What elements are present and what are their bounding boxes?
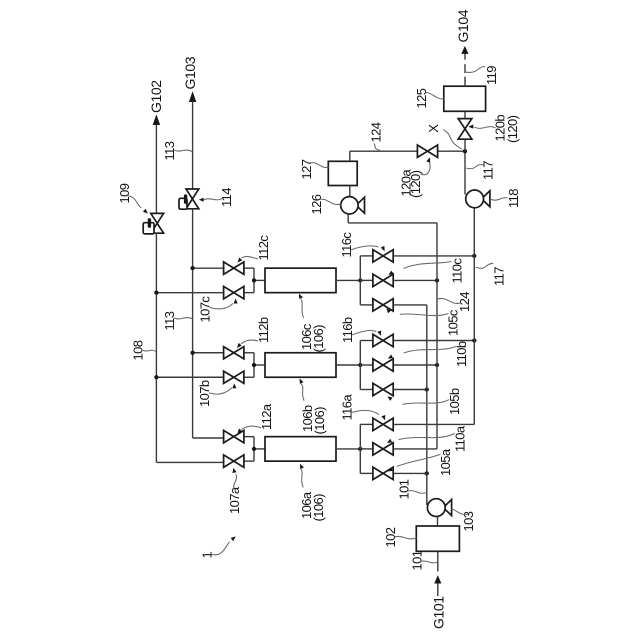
svg-text:116a: 116a <box>340 394 355 421</box>
valve 105b <box>373 383 393 395</box>
wire 110c outlet <box>393 278 439 282</box>
valve 107c <box>224 286 244 298</box>
node joiner a <box>252 437 265 462</box>
node spreader c <box>336 256 373 305</box>
adsorber 106a <box>265 437 336 462</box>
label 101 below box with leader <box>409 550 437 570</box>
label 117 lower with leader <box>476 263 506 286</box>
label 113 lower with leader <box>162 311 192 330</box>
valve 112b <box>224 347 244 359</box>
wire 107a branch <box>244 460 254 462</box>
svg-text:101: 101 <box>409 550 424 570</box>
wire 112a branch <box>244 436 254 438</box>
wire 105a outlet <box>393 471 429 475</box>
label X with leader <box>426 124 461 149</box>
label 116c with leader <box>339 232 385 258</box>
label 105b with leader <box>387 388 462 415</box>
svg-text:110c: 110c <box>450 258 465 284</box>
label 120a (120) with leader <box>398 157 430 198</box>
node spreader a <box>336 424 373 473</box>
wire 112c branch <box>190 266 254 270</box>
label 124 right with leader <box>438 292 472 312</box>
svg-text:G103: G103 <box>182 56 198 89</box>
label 110b with leader <box>388 341 469 367</box>
svg-text:(106): (106) <box>311 494 326 522</box>
svg-text:110b: 110b <box>454 341 469 367</box>
wire 101 inlet <box>437 551 439 596</box>
wire 105c outlet <box>393 304 427 306</box>
wire 108 main vertical <box>156 233 223 462</box>
condenser 125 <box>444 86 486 111</box>
svg-text:110a: 110a <box>453 425 468 452</box>
node joiner b <box>252 353 265 378</box>
flow arrow G104 <box>461 46 468 54</box>
scrubber 102 <box>416 526 459 551</box>
label 110c with leader <box>388 258 464 284</box>
label 102 with leader <box>383 527 416 547</box>
svg-text:105b: 105b <box>447 388 462 415</box>
valve 107b <box>224 371 244 383</box>
label 107b with leader <box>197 380 236 407</box>
flow arrow G102 <box>153 114 160 125</box>
label 116b with leader <box>340 317 381 343</box>
adsorber 106c <box>265 268 336 293</box>
valve 110a <box>373 443 393 455</box>
valve 114 (control valve) <box>179 189 199 209</box>
valve 116c <box>373 250 393 262</box>
svg-text:126: 126 <box>309 194 324 214</box>
flow arrow G103 <box>189 91 196 102</box>
svg-text:(120): (120) <box>505 115 520 143</box>
label 101 near pump with leader <box>396 479 426 499</box>
wire 107c branch <box>154 291 254 295</box>
svg-text:112b: 112b <box>256 317 271 343</box>
wire 110b outlet <box>393 363 439 367</box>
wire 124 header (line B) <box>348 223 437 449</box>
label 125 with leader <box>414 88 444 108</box>
pump 126 <box>341 186 365 223</box>
label 108 with leader <box>131 340 156 360</box>
svg-text:124: 124 <box>457 292 472 312</box>
wire G102 riser <box>155 124 157 213</box>
label 106a (106) with leader <box>299 464 326 522</box>
valve 116b <box>373 334 393 346</box>
svg-text:119: 119 <box>484 66 499 85</box>
wire 101 header (line A) <box>426 305 428 505</box>
wire 113 main vertical <box>193 209 224 438</box>
wire 116a outlet <box>393 423 474 425</box>
svg-text:102: 102 <box>383 527 398 547</box>
valve 112a <box>224 430 244 442</box>
label 112c with leader <box>238 235 272 263</box>
label 114 with leader <box>199 188 234 207</box>
junction dot 124/117 <box>463 149 467 153</box>
label 105a with leader <box>388 448 454 476</box>
label 113 upper with leader <box>162 141 192 160</box>
label 118 with leader <box>491 189 521 208</box>
svg-text:117: 117 <box>481 161 496 180</box>
wire 116c outlet <box>393 254 476 258</box>
valve 110c <box>373 274 393 286</box>
node spreader b <box>336 341 373 390</box>
svg-text:117: 117 <box>491 267 506 286</box>
wire 105b outlet <box>393 387 429 391</box>
svg-text:(106): (106) <box>311 325 326 353</box>
valve 107a <box>224 455 244 467</box>
label 106c (106) with leader <box>299 294 326 353</box>
svg-text:101: 101 <box>396 479 411 499</box>
svg-text:105a: 105a <box>438 448 453 476</box>
valve 120a <box>417 145 437 157</box>
label 126 with leader <box>309 194 341 214</box>
adsorber 106b <box>265 353 336 378</box>
svg-text:113: 113 <box>162 311 177 330</box>
svg-text:G102: G102 <box>148 80 164 113</box>
pump 118 <box>465 151 490 208</box>
valve 116a <box>373 418 393 430</box>
svg-text:G101: G101 <box>431 596 447 629</box>
label 127 with leader <box>299 159 328 179</box>
label 110a with leader <box>387 425 468 452</box>
label 106b (106) with leader <box>300 379 328 435</box>
label 124 upper with leader <box>368 122 383 150</box>
label 107c with leader <box>198 296 238 323</box>
svg-text:112c: 112c <box>256 235 271 261</box>
box 127 <box>328 161 357 185</box>
label 112b with leader <box>237 317 271 348</box>
wire 110a outlet <box>393 448 437 450</box>
svg-text:116b: 116b <box>340 317 355 343</box>
svg-text:124: 124 <box>368 122 383 142</box>
label 109 with leader <box>117 183 148 213</box>
label 107a with leader <box>227 468 242 514</box>
wire 112b branch <box>190 351 254 355</box>
label 120b (120) with leader <box>468 115 520 143</box>
svg-text:(120): (120) <box>408 170 423 198</box>
svg-text:125: 125 <box>414 88 429 108</box>
valve 110b <box>373 359 393 371</box>
label 1 with leader arrow <box>199 536 235 558</box>
svg-text:G104: G104 <box>455 9 471 42</box>
wire G103 riser <box>192 101 194 189</box>
label 119 with leader <box>466 66 499 85</box>
label 103 with leader <box>452 509 476 532</box>
label 117 upper with leader <box>467 161 496 180</box>
valve 105c <box>373 299 393 311</box>
wire 116b outlet <box>393 338 476 342</box>
svg-text:116c: 116c <box>339 232 354 258</box>
svg-text:107a: 107a <box>227 486 242 514</box>
svg-text:114: 114 <box>219 188 234 207</box>
wire 119 dashed <box>464 53 466 87</box>
label 116a with leader <box>340 394 386 421</box>
svg-text:112a: 112a <box>259 403 274 430</box>
wire 124 from box 127 <box>350 151 465 161</box>
valve 105a <box>373 467 393 479</box>
svg-text:(106): (106) <box>312 407 327 435</box>
svg-text:X: X <box>426 124 441 133</box>
valve 120b <box>458 111 472 151</box>
label 105c with leader <box>386 308 460 336</box>
pump 103 <box>427 499 451 526</box>
flow arrow G101 <box>434 575 441 583</box>
wire 117 header (line C) <box>473 208 475 425</box>
node joiner c <box>252 268 265 293</box>
valve 109 (control valve) <box>143 213 163 234</box>
label 112a with leader <box>237 403 274 434</box>
svg-text:109: 109 <box>117 183 132 203</box>
valve 112c <box>224 262 244 274</box>
wire 107b branch <box>154 375 254 379</box>
svg-text:118: 118 <box>506 189 521 208</box>
svg-text:107c: 107c <box>198 296 213 323</box>
